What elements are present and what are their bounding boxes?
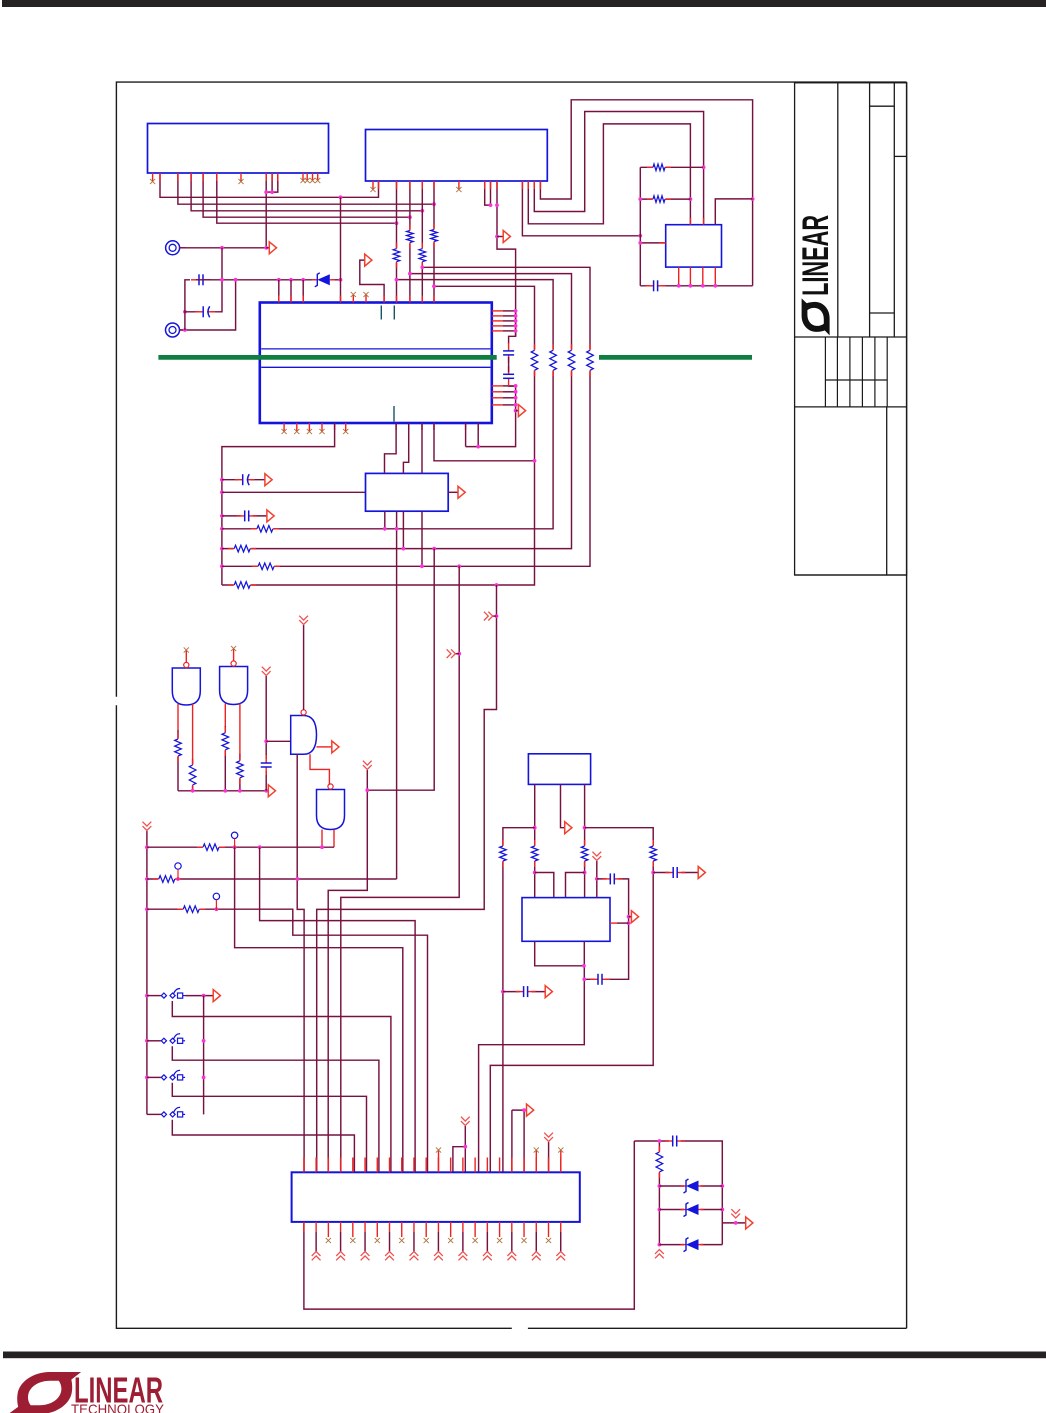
ground chevron P1.16 [483,1252,492,1261]
P1 bottom pin 14 chevron [462,1222,464,1252]
junction dots gate bus joins [191,789,268,793]
P1 bottom pin 2 chevron [315,1222,317,1252]
off-page arrow A12 [545,986,552,998]
title block section line 2 [795,406,907,408]
P1 bottom pin 16 chevron [486,1222,488,1252]
wire U6 pin2 arrow [561,784,565,827]
wire U2 pin to U4 c [421,181,423,303]
wire U3 bottom bus [640,285,752,287]
wire U6 pin3 down [584,784,586,897]
title block divider v2 [869,83,871,337]
P1 top pin stub 2 [315,1158,317,1173]
resistor R20 [153,875,181,884]
U3 top pin2 [703,218,705,225]
junction dots gateCleg row2 join [296,877,300,881]
wire left control bus [146,831,148,1114]
capacitor C9 [516,985,536,998]
P1 bottom pin 10 chevron [413,1222,415,1252]
off-page arrow A16 [746,1217,753,1229]
title block lower divider [886,407,888,575]
U4 top pin stub 9 [433,296,435,303]
off-page chevron CH2 [484,612,493,621]
P1 top pin stub 19 [523,1158,525,1173]
U4 top pin stub 1 [278,296,280,303]
wire cap row 2 [222,515,267,517]
green net highlight right [599,355,752,360]
wire U4 top pin a [278,280,280,303]
test tap TP2 [175,863,181,880]
P1 top pin stub 20 [535,1158,537,1173]
gate A1 leg 1 [177,704,179,791]
wire U7 jog 2 [566,873,585,898]
U3 top pin1 [689,218,691,225]
off-page chevron CH1 [447,649,456,658]
junction dots J2 joins [183,310,187,332]
junction dots analog bus joins [220,278,342,282]
wire row 460 link [434,423,535,461]
wire arrow lead [516,410,519,412]
gate A1 leg 2 [192,704,194,791]
U2 pin stub 8 [490,181,492,189]
wire U2 pin to U4 b [409,181,411,303]
wire U2.14 loop1 [540,100,752,286]
wire row1 tap down [340,197,342,302]
wire U1.6 to U2 row5 [217,173,397,223]
junction dots U2 right cluster [489,203,499,238]
resistor R4 [430,224,439,248]
capacitor C5 [502,366,515,386]
P1 bottom nc pin 13 [448,1222,453,1243]
U4 clock tick 1 [380,306,382,320]
off-page arrow A11 [565,822,572,834]
switch S4 [147,1107,185,1117]
wire U1.8 stub [271,173,273,192]
U1 pin stub 2 [159,173,161,181]
U2 pin stub 5 [421,181,423,189]
wire S1 arrow lead [185,995,213,997]
wire R6 row [640,198,690,200]
resistor R14 [228,581,256,590]
wire U7 bottom pin2 long [479,941,585,1172]
wire row E [222,286,535,585]
wire U1.3 to U2 row2 [178,173,434,204]
input jack J1 [166,241,186,255]
U4 bottom pin stub 2 [395,423,397,430]
gate A2 [220,661,248,705]
capacitor C11 [602,872,622,885]
junction dots control bus joins [145,845,149,1079]
IC U5 [366,473,449,511]
U1.12 nc pin [305,173,310,183]
wire U7 bottom pin1 [535,941,584,966]
ground chevron P1.20 [532,1252,541,1261]
Linear Technology logo (title block, rotated) [795,215,836,336]
ground chevron P1.6 [361,1252,370,1261]
P1 top pin stub 13 [450,1158,452,1173]
wire chevron stub [455,653,459,655]
junction dots loop joins [638,165,754,237]
off-page arrow A8 [268,785,275,797]
zener D2 [681,1179,704,1193]
resistor R15 [174,733,183,762]
junction dots left bus joins [220,478,224,568]
green net highlight left [158,355,496,360]
P1 top pin stub 21 [548,1158,550,1173]
gate A1 top pin [184,647,189,662]
wire U5 top jog 2 [403,423,408,473]
wire row 1 [147,846,334,848]
P1 bottom pin 8 chevron [389,1222,391,1252]
wire gate C input [266,740,291,742]
junction dots row446 join [476,445,480,449]
wire zener top row [634,1141,722,1245]
resistor R3 [418,243,427,268]
U1.14 nc pin [315,173,320,183]
U4 bottom pin stub 5 [433,423,435,430]
wire net x367 chevron down [328,770,367,1172]
wire net x496 down [317,585,497,1172]
gate D leg 2 [333,830,335,848]
wire arrow lead [497,236,503,238]
wire row 3 [147,909,428,1172]
wire row C [222,274,572,549]
wire net x259 down [260,847,416,1172]
wire row 2 [147,878,397,880]
junction dots row top taps [395,265,537,462]
U4 clock tick 3 [393,406,395,422]
P1 bottom pin 4 chevron [340,1222,342,1252]
P1 bottom pin 22 chevron [560,1222,562,1252]
resistor R13 [252,562,280,571]
IC U6 [528,754,590,785]
off-page arrow A1 [503,231,510,243]
off-page arrow A13 [698,867,705,879]
wire net x266 vertical [265,676,267,791]
wire U5 bottom pin 1 [384,511,386,529]
P1 bottom pin 20 chevron [535,1222,537,1252]
wire U3 left column [639,167,641,285]
off-page arrow A10 [213,990,220,1002]
wire cap link right [584,879,628,979]
U4 top pin stub 4 [340,296,342,303]
junction dots S1 join [202,994,206,998]
wire U2.11 loop4 [522,181,640,236]
wire U5 top jog 1 [385,423,397,473]
wire arrow lead [266,247,269,249]
schematic sheet border [116,82,906,1328]
U4 right pin upper 3 [492,320,516,322]
resistor R23 [580,840,589,867]
resistor R26 [655,1146,664,1178]
U4 bottom pin stub 7 [477,423,479,430]
P1 top pin stub 5 [352,1158,354,1173]
connector nc top 3 [558,1147,563,1172]
resistor R12 [228,544,256,553]
U4 bottom pin stub 1 [334,423,336,430]
cap column mid [508,357,510,372]
U4 right pin lower 1 [492,385,516,387]
U4 top pin stub 8 [421,296,423,303]
P1 top pin stub 9 [401,1158,403,1173]
wire row446 right [465,423,467,447]
U4 top pin stub 6 [396,296,398,303]
U4 top nc pin 2 [363,292,368,303]
U4 bottom nc pin 3 [307,423,312,434]
capacitor C6 [235,473,255,486]
U4 bottom nc pin 1 [282,423,287,434]
U4 right pin upper 5 [492,330,516,332]
off-page chevron CH3 [363,761,372,770]
P1 top pin stub 16 [486,1158,488,1173]
junction dots cap tap join [501,990,505,994]
junction dots U3 col joins [638,197,642,245]
title block outer frame [795,83,907,575]
test tap TP1 [231,832,237,849]
wire U5 bottom pin 4 [421,511,423,566]
wire U2 pin to U4 d [433,181,435,303]
U2 pin stub 11 [527,181,529,189]
junction dots chev net join [595,877,599,881]
U1.10 nc pin [238,173,243,184]
P1 bottom nc pin 17 [497,1222,502,1243]
wire U4 top pin c [302,280,304,303]
P1 top pin stub 12 [437,1158,439,1173]
wire chevron stub [493,615,497,617]
wire J1 row [180,247,267,249]
capacitor C3 [195,305,215,318]
P1 bottom nc pin 15 [473,1222,478,1243]
U2 pin stub 3 [396,181,398,189]
title block divider v3 [893,83,895,337]
wire U5 right arrow lead [448,491,458,493]
Linear Technology logo (footer) [8,1370,164,1413]
P1 top pin stub 14 [462,1158,464,1173]
off-page arrow A3 [365,254,372,266]
ground chevron P1.4 [336,1252,345,1261]
wire U5 top pin 3 [421,423,423,473]
wire zener row 2 [659,1209,722,1211]
off-page arrow A9 [332,741,339,753]
svg-text:LINEAR: LINEAR [795,215,836,296]
wire S3 lower [172,1083,366,1173]
P1 bottom nc pin 9 [399,1222,404,1243]
bottom black bar [3,1352,1046,1359]
U1.13 nc pin [310,173,315,183]
U1 pin stub 4 [190,173,192,181]
off-page arrow A5 [265,474,272,486]
U4 bottom pin stub 6 [465,423,467,430]
wire U2.8 jog [485,181,491,205]
wire S4 lower [172,1120,354,1173]
wire R5 row [640,166,703,168]
wire U3 top pin3 wire [715,199,752,225]
off-page arrow A2 [269,242,276,254]
gate A2 leg 2 [239,704,241,791]
U4 internal rail bottom [261,366,490,368]
title block divider v1 [837,83,839,337]
connector nc top 2 [534,1147,539,1172]
wire tie [266,191,272,193]
P1 bottom nc pin 5 [350,1222,355,1243]
wire U1.2 to U2 row1 [160,173,379,197]
wire U6 pin1 down [534,784,536,897]
ground chevron CH10 [655,1250,664,1259]
junction dots x266 join [264,739,268,743]
wire zener row 1 [659,1185,722,1187]
wire gate output bus [178,790,268,792]
IC U1 [148,124,329,174]
wire arrow T left [511,1110,513,1172]
P1 top pin stub 4 [340,1158,342,1173]
capacitor C2 [191,273,211,286]
ground chevron P1.12 [434,1252,443,1261]
P1 top pin stub 15 [474,1158,476,1173]
wire net x434 down [367,549,434,791]
P1 top pin stub 22 [560,1158,562,1173]
resistor R8 [549,344,558,376]
title block h line a [870,105,895,107]
resistor R17 [221,727,230,756]
U7 right pin [610,922,629,924]
title block section line 1 [795,336,907,338]
junction dots zener bus joins [658,1139,725,1246]
ground chevron P1.2 [312,1252,321,1261]
U4 top pin stub 3 [302,296,304,303]
U4 clock tick 2 [393,306,395,320]
P1 top pin stub 7 [376,1158,378,1173]
P1 pin1 stub red [303,1222,305,1232]
junction dots cap link joins [627,915,631,925]
resistor R11 [251,524,279,533]
junction dots x459 chevron join [457,652,461,656]
U4 internal rail top [261,348,490,350]
U4 right pin upper 2 [492,315,516,317]
connector P1 [292,1172,580,1222]
wire P1 pin1 ground run [304,1141,634,1309]
wire zener row 3 [659,1244,722,1246]
gate A1 [172,662,200,705]
gate D leg 1 [321,830,323,848]
IC U2 [366,130,548,182]
off-page arrow A14 [631,911,638,923]
IC U3 [666,225,722,267]
junction dots U7 bottom joins [582,964,586,981]
wire cap row 1 [222,479,265,481]
off-page chevron CH5 [299,616,308,625]
wire zener stub arrow [722,1222,745,1224]
wire arrow T feeder [512,1110,524,1172]
resistor R16 [188,759,197,791]
junction dots row2 joins [176,877,299,881]
wire net x459 down [341,566,459,1172]
U3 bottom pin3 [702,267,704,286]
title block h line c [870,312,895,314]
wire J1 down [221,248,223,280]
resistor R1 [392,243,401,268]
U4 top pin stub 2 [290,296,292,303]
wire cap arrow lead [503,991,545,993]
junction dots row1 joins [233,845,324,849]
junction dots row join dots [383,527,499,587]
title block h line b [894,155,906,157]
capacitor C4 [502,343,515,363]
wire arrow jog to U4 [360,260,384,302]
junction dots bundle rows [339,195,436,225]
resistor R21 [177,905,205,914]
U2 pin stub 9 [496,181,498,189]
wire U2.12 loop3 [528,124,690,225]
off-page arrow A6 [267,510,274,522]
switch S1 [147,989,185,999]
P1 bottom nc pin 11 [424,1222,429,1243]
U4 top pin stub 5 [383,296,385,303]
wire U2.10 net down [497,181,516,344]
zener D3 [681,1203,704,1217]
wire zener left bus [658,1141,660,1245]
wire row446 pin2 [477,423,479,447]
off-page chevron CH4 [262,667,271,676]
junction dots x496 chevron join [495,614,499,618]
resistor R25 [649,840,658,867]
gate A4 [317,784,345,830]
capacitor C1 [646,279,666,292]
U2 pin stub 6 [433,181,435,189]
wire cap arrow lead 2 [653,872,698,874]
P1 top pin stub 10 [413,1158,415,1173]
off-page chevron CH9 [544,1133,553,1142]
off-page arrow A15 [527,1104,534,1116]
U4 right pin lower 2 [492,391,516,393]
P1 top pin stub 3 [327,1158,329,1173]
capacitor C13 [665,1135,685,1148]
off-page chevron CH11 [731,1209,740,1218]
top black bar [2,0,1046,7]
resistor R5 [647,163,671,172]
junction dots U6 pin3 joins [583,826,587,875]
U3 bottom pin4 [714,267,716,286]
wire U1.4 to U2 row3 [191,173,422,211]
svg-text:TECHNOLOGY: TECHNOLOGY [71,1401,165,1413]
P1 bottom pin 18 chevron [511,1222,513,1252]
wire T feeder b [453,1147,465,1173]
U1.1 nc pin [150,173,155,184]
wire U1.5 to U2 row4 [203,173,410,217]
U1 pin stub 6 [216,173,218,181]
capacitor C10 [665,866,685,879]
wire net x234 down [235,847,403,1172]
U4 top pin stub 7 [409,296,411,303]
P1 top pin stub 6 [364,1158,366,1173]
off-page chevron CH6 [143,822,152,831]
P1 top pin stub 17 [499,1158,501,1173]
junction dots x653 join [651,871,655,875]
P1 top pin stub 11 [425,1158,427,1173]
U4 top nc pin 1 [351,292,356,303]
U4 bottom pin stub 4 [421,423,423,430]
U4 right pin upper 4 [492,325,516,327]
U4 right pin upper 1 [492,310,516,312]
P1 bottom nc pin 7 [375,1222,380,1243]
junction dots U3 bus joins [677,284,717,288]
wire S2 lower [172,1046,379,1172]
ground chevron P1.18 [507,1252,516,1261]
wire row D [222,267,590,566]
resistor R7 [530,344,539,376]
test tap TP3 [213,893,219,910]
wire row B [222,280,553,529]
IC U7 [522,898,610,942]
U4 bottom nc pin 4 [319,423,324,434]
